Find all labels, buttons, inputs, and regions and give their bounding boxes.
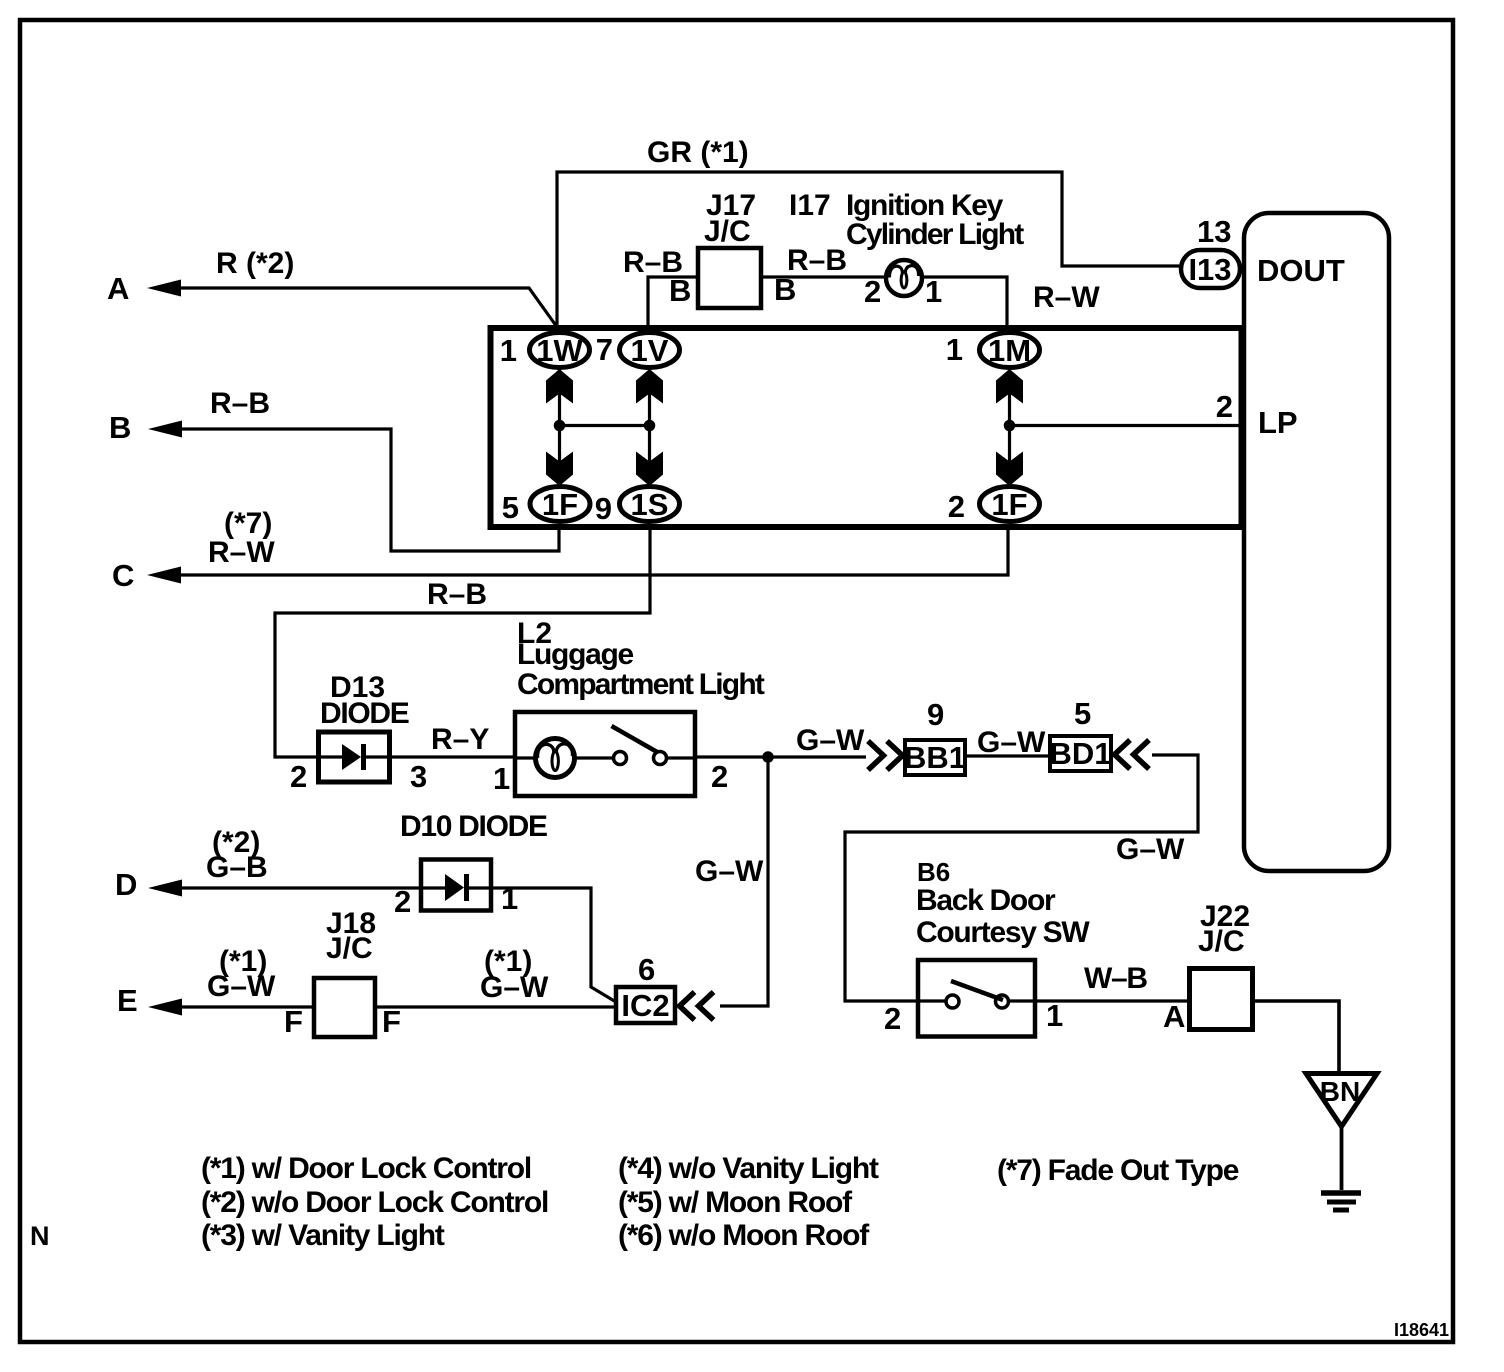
svg-text:(*6) w/o Moon Roof: (*6) w/o Moon Roof xyxy=(618,1219,870,1252)
wire GR (*1) from node above 1W to connector I13 xyxy=(557,172,1179,330)
wire R-B from 1S to diode D13 xyxy=(275,526,650,757)
connector I13 xyxy=(1181,250,1240,288)
wire column 1M-1F xyxy=(1008,368,1011,487)
connector arrow up 1W xyxy=(546,369,573,404)
svg-text:J/C: J/C xyxy=(704,215,751,248)
connector 1S xyxy=(620,487,680,523)
svg-text:G–W: G–W xyxy=(977,726,1046,759)
svg-text:J/C: J/C xyxy=(326,932,373,965)
ECU DOUT box xyxy=(1244,213,1389,871)
svg-text:GR (*1): GR (*1) xyxy=(647,136,749,169)
connector BD1 arrows xyxy=(1115,740,1150,769)
svg-text:BN: BN xyxy=(1320,1076,1360,1107)
svg-text:1: 1 xyxy=(493,761,510,796)
wire G-W from junction down to IC2 xyxy=(720,757,768,1006)
svg-text:G–W: G–W xyxy=(796,724,865,757)
connector 1V xyxy=(620,333,680,369)
svg-text:G–W: G–W xyxy=(695,855,764,888)
svg-text:R–B: R–B xyxy=(787,244,847,277)
svg-text:2: 2 xyxy=(948,489,965,524)
wire G-W from J18 to IC2 xyxy=(375,1005,616,1008)
svg-text:C: C xyxy=(112,558,134,593)
svg-text:I17: I17 xyxy=(789,189,831,222)
svg-text:B: B xyxy=(669,273,691,308)
svg-text:G–W: G–W xyxy=(207,970,276,1003)
node junction dot xyxy=(1004,420,1016,432)
wire from J22 to ground BN xyxy=(1253,1001,1340,1072)
svg-text:7: 7 xyxy=(596,332,613,367)
svg-text:DIODE: DIODE xyxy=(320,697,409,730)
svg-text:2: 2 xyxy=(864,274,881,309)
svg-text:(*5) w/ Moon Roof: (*5) w/ Moon Roof xyxy=(618,1186,853,1219)
connector arrow up 1V xyxy=(636,369,663,404)
svg-text:R (*2): R (*2) xyxy=(216,247,294,280)
node E output arrow, wire G-W xyxy=(148,999,314,1016)
svg-text:A: A xyxy=(1163,999,1185,1034)
svg-text:Cylinder Light: Cylinder Light xyxy=(846,218,1024,251)
svg-text:1S: 1S xyxy=(631,487,669,522)
svg-text:I18641: I18641 xyxy=(1394,1320,1449,1340)
node D output arrow, wire G-B xyxy=(148,880,421,897)
svg-text:W–B: W–B xyxy=(1084,962,1147,995)
wire column 1V-1S xyxy=(648,368,651,487)
svg-text:Back Door: Back Door xyxy=(916,884,1056,917)
connector BB1 xyxy=(904,740,966,775)
svg-text:1: 1 xyxy=(925,274,942,309)
svg-text:B: B xyxy=(109,410,131,445)
svg-text:13: 13 xyxy=(1197,214,1231,249)
svg-text:I13: I13 xyxy=(1188,252,1231,287)
svg-text:G–W: G–W xyxy=(480,971,549,1004)
svg-text:R–B: R–B xyxy=(210,387,270,420)
svg-text:2: 2 xyxy=(290,759,307,794)
wire G-W from BD1 to back door switch B6 xyxy=(845,755,1198,1001)
wire W-B from B6 to J22 xyxy=(1035,999,1189,1002)
svg-text:Luggage: Luggage xyxy=(517,638,634,671)
wire G-W from D10 to IC2 xyxy=(491,888,616,1002)
svg-text:R–W: R–W xyxy=(1033,281,1100,314)
wire link between columns xyxy=(560,424,650,427)
node junction dot xyxy=(762,751,774,763)
svg-text:1: 1 xyxy=(501,881,518,916)
svg-text:1: 1 xyxy=(1046,998,1063,1033)
connector BD1 xyxy=(1049,736,1111,771)
connector 1W xyxy=(530,333,590,369)
svg-text:(*1) w/ Door Lock Control: (*1) w/ Door Lock Control xyxy=(201,1152,531,1185)
svg-text:2: 2 xyxy=(884,1001,901,1036)
svg-text:D: D xyxy=(115,867,137,902)
svg-text:5: 5 xyxy=(502,490,519,525)
svg-text:N: N xyxy=(30,1221,50,1251)
connector IC2 arrows xyxy=(680,992,714,1020)
svg-text:Compartment Light: Compartment Light xyxy=(517,668,765,701)
svg-text:(*3) w/ Vanity Light: (*3) w/ Vanity Light xyxy=(201,1219,445,1252)
connector arrow down 1F xyxy=(546,452,573,487)
svg-text:G–B: G–B xyxy=(206,851,268,884)
svg-text:1F: 1F xyxy=(542,487,578,522)
svg-text:2: 2 xyxy=(711,759,728,794)
wire R-B into J17 and down to 1V xyxy=(648,277,698,330)
svg-text:J/C: J/C xyxy=(1198,925,1245,958)
svg-text:A: A xyxy=(107,271,129,306)
svg-text:2: 2 xyxy=(394,884,411,919)
connector IC2 xyxy=(616,987,675,1023)
svg-text:D10 DIODE: D10 DIODE xyxy=(400,810,547,843)
wire R-Y xyxy=(390,755,515,758)
svg-text:6: 6 xyxy=(638,952,655,987)
diode D13 xyxy=(318,732,390,782)
wire column 1W-1F xyxy=(558,368,561,487)
node B output arrow, wire R-B from 1F xyxy=(148,421,559,552)
connector 1F right xyxy=(980,487,1040,523)
wire LP pin 2 to DOUT xyxy=(1010,424,1243,427)
connector 1F xyxy=(530,487,590,523)
node junction dot xyxy=(644,420,656,432)
wire G-W from L2 to BB1 xyxy=(695,755,866,758)
svg-text:BD1: BD1 xyxy=(1049,736,1111,771)
ground BN triangle xyxy=(1306,1074,1377,1127)
svg-text:(*2) w/o Door Lock Control: (*2) w/o Door Lock Control xyxy=(201,1186,548,1219)
connector 1M xyxy=(980,333,1040,369)
svg-text:LP: LP xyxy=(1258,405,1298,440)
svg-text:R–Y: R–Y xyxy=(431,723,489,756)
svg-text:F: F xyxy=(284,1004,303,1039)
junction J17 J/C xyxy=(698,248,761,308)
switch B6 back door courtesy xyxy=(918,960,1035,1037)
svg-text:F: F xyxy=(382,1004,401,1039)
node A output arrow xyxy=(147,280,557,328)
node C output arrow, wire R-W from 1F xyxy=(147,526,1008,584)
junction J18 J/C xyxy=(314,978,375,1037)
svg-text:R–W: R–W xyxy=(208,536,275,569)
svg-text:1M: 1M xyxy=(988,333,1031,368)
svg-text:G–W: G–W xyxy=(1116,833,1185,866)
svg-text:9: 9 xyxy=(595,491,612,526)
svg-text:9: 9 xyxy=(927,697,944,732)
ground symbol xyxy=(1321,1193,1361,1210)
connector arrow down 1F right xyxy=(996,452,1023,487)
svg-text:1: 1 xyxy=(500,333,517,368)
connector block J/B xyxy=(491,328,1242,527)
lamp I17 ignition key cylinder light xyxy=(886,260,922,296)
svg-text:5: 5 xyxy=(1074,696,1091,731)
svg-text:1: 1 xyxy=(946,332,963,367)
connector arrow down 1S xyxy=(636,452,663,487)
svg-text:1W: 1W xyxy=(536,333,583,368)
diode D10 xyxy=(421,860,491,911)
svg-text:R–B: R–B xyxy=(427,578,487,611)
svg-text:BB1: BB1 xyxy=(904,740,966,775)
svg-text:3: 3 xyxy=(410,759,427,794)
node junction dot xyxy=(554,420,566,432)
svg-text:DOUT: DOUT xyxy=(1257,253,1345,288)
svg-text:1F: 1F xyxy=(991,487,1027,522)
svg-text:1V: 1V xyxy=(631,333,669,368)
lamp L2 luggage compartment light xyxy=(515,712,695,796)
svg-text:2: 2 xyxy=(1216,389,1233,424)
connector arrow up 1M xyxy=(996,369,1023,404)
svg-text:B6: B6 xyxy=(917,857,950,887)
connector BB1 arrows xyxy=(868,741,903,770)
svg-text:(*4) w/o Vanity Light: (*4) w/o Vanity Light xyxy=(618,1152,879,1185)
svg-text:(*7) Fade Out Type: (*7) Fade Out Type xyxy=(997,1154,1239,1187)
svg-text:E: E xyxy=(117,983,138,1018)
wire G-W BB1 to BD1 xyxy=(965,754,1050,757)
svg-text:IC2: IC2 xyxy=(621,988,669,1023)
junction J22 J/C xyxy=(1190,969,1253,1030)
wire BN to ground xyxy=(1340,1128,1344,1190)
svg-text:Courtesy SW: Courtesy SW xyxy=(916,916,1090,949)
wire R-B from J17 through lamp I17 to 1M xyxy=(761,277,1007,330)
